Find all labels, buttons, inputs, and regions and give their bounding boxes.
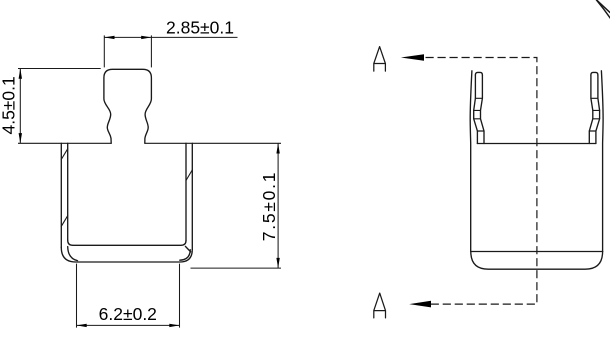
right view right clip tick 2 <box>593 109 600 111</box>
right view right outer wall <box>601 71 603 252</box>
dim 2.85 right arrow <box>141 36 151 39</box>
svg-text:4.5±0.1: 4.5±0.1 <box>0 76 18 134</box>
left view right wall outer line <box>191 143 193 249</box>
right view right clip tick 3 <box>593 118 600 120</box>
section arrow bottom <box>409 301 431 308</box>
right view left clip tick 3 <box>474 118 481 120</box>
right view left clip tick 4 <box>477 130 484 132</box>
dim 2.85 left extension line <box>103 35 105 67</box>
section line A-A dashed <box>426 58 537 305</box>
left wall hatch 1 <box>61 149 67 160</box>
right view left clip tick 2 <box>474 109 481 111</box>
right view left clip strip right line <box>481 75 485 144</box>
dim 6.2 left arrow <box>77 324 87 327</box>
shoulder line left with 4.5 extension <box>18 142 111 144</box>
right view left clip cap <box>475 72 482 75</box>
right view bottom inner line <box>471 251 603 253</box>
left view right wall inner line <box>185 143 187 240</box>
right view right clip strip right line <box>596 75 600 144</box>
left view left wall inner line <box>67 143 69 240</box>
left view tab outline <box>104 69 151 143</box>
right wall hatch <box>186 170 192 181</box>
right view shoulder line <box>477 143 596 145</box>
dim 6.2 dimension line <box>77 324 180 326</box>
right view left clip tick 1 <box>475 97 482 99</box>
right view right clip tick 1 <box>591 97 598 99</box>
right view right clip strip left line <box>589 75 593 144</box>
dim 2.85 right extension line <box>150 35 152 67</box>
dim 6.2 right arrow <box>169 324 179 327</box>
dim 6.2 left extension line <box>76 264 78 328</box>
right view right clip tick 4 <box>589 130 596 132</box>
left wall hatch 2 <box>61 216 67 227</box>
left view inner bottom <box>68 240 186 245</box>
right view left outer wall <box>470 71 472 252</box>
dim 7.5 dimension line <box>277 143 279 268</box>
dim 2.85 dimension line <box>104 36 237 38</box>
right view right clip cap <box>591 72 598 75</box>
right bottom corner inner arc <box>180 250 191 260</box>
dim 4.5 top arrow <box>19 69 22 79</box>
svg-text:7.5±0.1: 7.5±0.1 <box>259 171 279 242</box>
section arrow top <box>401 54 424 61</box>
dim 6.2 right extension line <box>179 264 181 328</box>
left view left wall outer line <box>60 143 62 247</box>
dim 7.5 bottom arrow <box>276 258 279 268</box>
right bottom corner sheet end diagonal <box>185 246 190 252</box>
corner arc inner top-right <box>597 0 610 18</box>
right view left clip strip left line <box>474 75 478 144</box>
dim 7.5 top arrow <box>276 143 279 153</box>
svg-text:2.85±0.1: 2.85±0.1 <box>166 18 234 38</box>
dim 2.85 left arrow <box>104 36 114 39</box>
dim 4.5 bottom arrow <box>19 133 22 143</box>
shoulder line right with 7.5 extension <box>145 142 281 144</box>
section label A top <box>374 47 386 72</box>
right view outer bottom <box>471 252 603 270</box>
corner arc outer top-right <box>596 0 610 13</box>
left bottom corner inner arc <box>68 247 78 261</box>
left view outer bottom <box>61 248 192 263</box>
dim 4.5 top extension line <box>18 68 101 70</box>
section label A bottom <box>374 293 386 318</box>
svg-text:6.2±0.2: 6.2±0.2 <box>99 304 157 324</box>
dim 4.5 dimension line <box>19 69 21 144</box>
dim 7.5 bottom extension line <box>191 267 282 269</box>
